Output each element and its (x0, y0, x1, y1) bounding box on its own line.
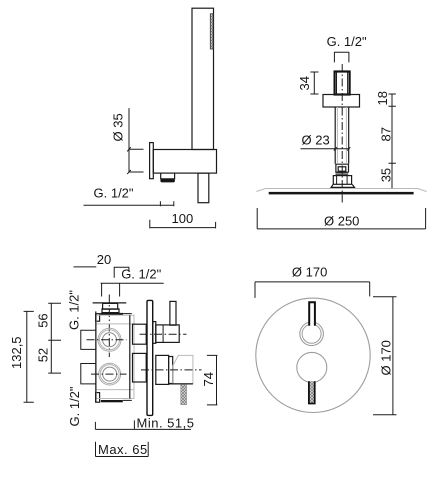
outlet nipple bar (169, 357, 173, 384)
dimension 74 bracket (207, 355, 218, 405)
mixer inlet G. 1/2 underline (101, 282, 164, 284)
mixer body left edge (95, 311, 97, 402)
svg-text:Ø 35: Ø 35 (111, 113, 126, 141)
dimension 52 (48, 340, 61, 373)
mixer top bar thin extension (123, 313, 132, 315)
head collar flare (331, 184, 354, 187)
outlet flange (156, 355, 169, 384)
handle flange (153, 322, 156, 344)
thread inner lines (337, 73, 348, 95)
wall bracket flange (150, 143, 154, 179)
mixer inlet top line (93, 302, 127, 304)
mixer rough-in body (grey) (96, 315, 134, 398)
outlet nipple (161, 173, 175, 179)
handle centerline (140, 333, 187, 335)
nut stem (336, 172, 349, 174)
svg-text:20: 20 (97, 252, 111, 267)
mixer inlet extension lines (102, 283, 120, 296)
mixer bottom bar thin extension (123, 399, 132, 401)
svg-text:Ø 23: Ø 23 (302, 132, 330, 147)
mixer body grey shelves (97, 324, 134, 390)
hand shower spray face hatch (210, 14, 213, 49)
svg-text:Ø 170: Ø 170 (378, 340, 393, 375)
dimension G. 1/2 line (hand shower) (84, 201, 175, 206)
mixer inlet centerline (108, 295, 110, 358)
hand shower handle (192, 8, 214, 149)
svg-text:G. 1/2": G. 1/2" (94, 186, 134, 201)
ceiling arm centerline (341, 64, 343, 204)
mixer bottom mounting bar (101, 400, 123, 402)
mixer top-left tab (96, 314, 100, 322)
mixer inlet stub (103, 303, 118, 309)
svg-text:74: 74 (201, 372, 216, 386)
dimension Ø 23 leader (301, 147, 351, 150)
drop pipe inner walls (337, 107, 346, 163)
wall bracket body (153, 150, 216, 174)
outlet bottom line (169, 383, 193, 385)
dimension Ø 35 ticks (127, 147, 131, 174)
cartridge 1 circles (98, 328, 121, 351)
svg-text:56: 56 (36, 313, 51, 327)
svg-text:87: 87 (379, 127, 394, 141)
mixer inlet G. 1/2 bracket (114, 267, 129, 278)
wall escutcheon plate (side) (147, 300, 153, 415)
dimension Min. 51,5 (95, 420, 191, 429)
dimension Ø 35 line (129, 108, 144, 172)
mixer body right edge (129, 315, 131, 398)
handle body (156, 325, 179, 343)
svg-text:Min. 51,5: Min. 51,5 (137, 416, 195, 431)
handle body inner line (162, 325, 164, 343)
svg-text:52: 52 (36, 348, 51, 362)
svg-text:18: 18 (375, 91, 390, 105)
front knob 2 (297, 352, 327, 382)
ceiling escutcheon (323, 95, 360, 108)
svg-text:34: 34 (297, 76, 312, 90)
threaded pipe top (335, 72, 350, 95)
svg-text:Max. 65: Max. 65 (98, 442, 148, 457)
left port G. 1/2 bottom bracket (81, 364, 96, 384)
dimension 100 (150, 220, 216, 229)
dimension Ø 250 (257, 208, 425, 229)
left port G. 1/2 top bracket (81, 330, 96, 349)
dimension 132,5 (24, 311, 34, 402)
front plate circle (256, 298, 370, 412)
head collar (333, 176, 351, 185)
dimension 34 bracket (310, 72, 318, 94)
wall section hatch block (181, 385, 187, 405)
dimension chain 18-87-35 line (389, 94, 396, 188)
dimension Ø 170 top (255, 282, 370, 298)
dimension Max. 65 (96, 442, 149, 457)
dimension 56 (48, 303, 61, 340)
dimension 20 line (74, 266, 97, 268)
cartridge 2 circles (99, 363, 121, 385)
connector box 1 (133, 324, 147, 344)
connector box 2 (133, 353, 147, 382)
mixer top mounting bar (100, 313, 123, 316)
front lever 2 (309, 381, 315, 403)
front lever 1 (309, 302, 315, 326)
dimension G. 1/2 bracket (ceiling arm) (334, 52, 349, 63)
drop pipe (335, 107, 349, 164)
dimension Ø 170 right (373, 297, 397, 415)
mixer bottom-left tab (96, 393, 100, 403)
head collar facets (337, 176, 348, 184)
handle lever (170, 301, 176, 325)
svg-text:35: 35 (379, 168, 394, 182)
svg-text:G. 1/2": G. 1/2" (121, 267, 161, 282)
svg-text:G. 1/2": G. 1/2" (327, 34, 367, 49)
hose connector (198, 173, 209, 203)
outlet nipple rim (160, 179, 175, 182)
cartridge 1 crosshair (87, 339, 127, 341)
hose attachment (grey) (173, 355, 193, 383)
svg-text:100: 100 (172, 211, 194, 226)
pipe end nut (335, 164, 349, 172)
shower plate disc (269, 192, 414, 195)
pipe end nut inner (338, 167, 346, 171)
svg-text:Ø 250: Ø 250 (324, 213, 359, 228)
shower plate top surface (256, 189, 426, 192)
svg-text:Ø 170: Ø 170 (292, 264, 327, 279)
svg-text:132,5: 132,5 (9, 336, 24, 369)
mixer inlet flange (102, 309, 119, 313)
cartridge 2 crosshair (91, 373, 127, 375)
svg-text:G. 1/2": G. 1/2" (67, 386, 82, 426)
outlet centerline (141, 369, 202, 371)
front knob 1 rings (300, 322, 324, 346)
svg-text:G. 1/2": G. 1/2" (67, 290, 82, 330)
